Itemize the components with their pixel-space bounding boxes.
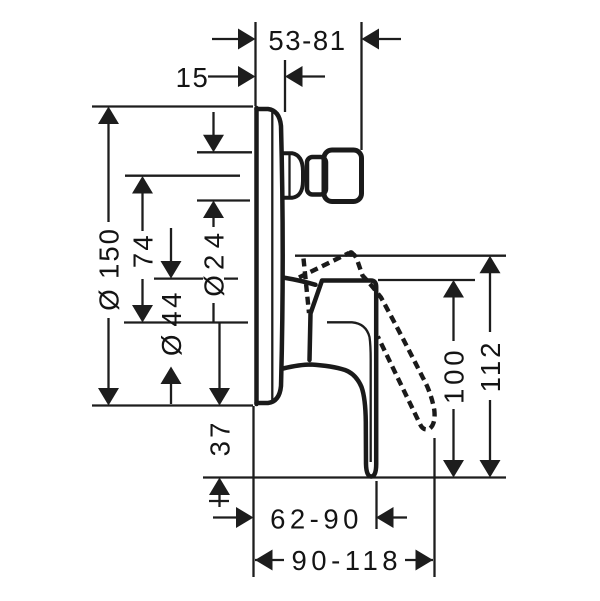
- svg-text:53-81: 53-81: [268, 25, 346, 56]
- svg-text:Ø: Ø: [93, 289, 124, 310]
- svg-text:112: 112: [475, 340, 506, 393]
- svg-text:44: 44: [156, 289, 187, 326]
- svg-text:74: 74: [127, 233, 158, 268]
- svg-text:62-90: 62-90: [270, 504, 363, 535]
- svg-text:24: 24: [198, 226, 229, 270]
- svg-text:15: 15: [176, 62, 210, 93]
- svg-text:Ø: Ø: [198, 275, 229, 296]
- svg-text:150: 150: [93, 227, 124, 279]
- svg-text:90-118: 90-118: [292, 545, 403, 576]
- svg-text:Ø: Ø: [156, 335, 187, 356]
- svg-text:37: 37: [204, 419, 235, 456]
- svg-text:100: 100: [438, 347, 469, 404]
